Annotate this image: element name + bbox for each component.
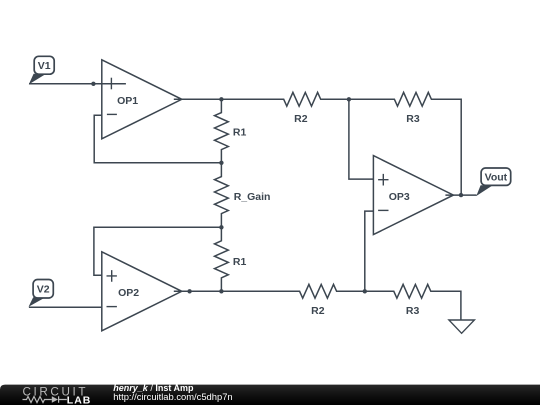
svg-text:R1: R1 [233,126,247,138]
svg-text:R_Gain: R_Gain [234,191,271,203]
svg-text:R2: R2 [311,305,325,317]
svg-text:V1: V1 [38,60,51,72]
svg-text:V2: V2 [37,284,50,296]
svg-text:OP2: OP2 [118,287,139,299]
svg-text:Vout: Vout [485,172,508,184]
svg-text:OP1: OP1 [117,95,138,107]
svg-text:LAB: LAB [67,394,92,405]
svg-text:R3: R3 [406,113,420,125]
svg-text:R3: R3 [406,305,420,317]
svg-text:R2: R2 [294,113,308,125]
svg-text:OP3: OP3 [389,191,410,203]
svg-text:R1: R1 [233,256,247,268]
svg-text:http://circuitlab.com/c5dhp7n: http://circuitlab.com/c5dhp7n [113,391,232,402]
